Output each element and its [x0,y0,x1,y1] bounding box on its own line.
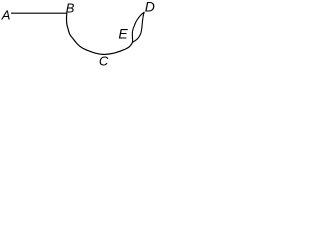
curve diagram with labeled points A B C D E [0,0,156,74]
svg-text:A: A [1,8,11,23]
svg-text:B: B [66,0,75,15]
wire: main curve from B down through C valley up to loop bottom [67,13,133,54]
svg-text:E: E [118,26,128,42]
wire: horizontal segment A to B [11,12,67,14]
svg-text:C: C [99,54,109,69]
background [0,0,156,74]
svg-text:D: D [145,0,155,15]
node loop: narrow lens, left side from bottom tip up to tip near D [132,12,144,42]
